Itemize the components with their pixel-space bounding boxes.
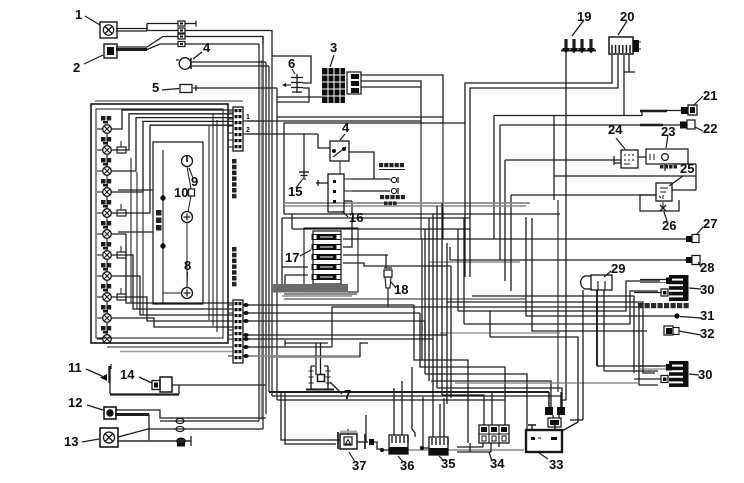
wire (161, 150, 181, 304)
wire (285, 393, 336, 444)
ignition coil 20 (609, 9, 641, 54)
relay 24 (608, 122, 638, 168)
wire (277, 116, 443, 118)
wire (361, 75, 443, 123)
svg-text:22: 22 (703, 121, 717, 136)
wire (349, 152, 374, 179)
wire (107, 346, 233, 348)
wire bus (276, 88, 278, 400)
wire (465, 55, 612, 123)
wire (284, 123, 465, 214)
svg-text:34: 34 (490, 456, 505, 471)
svg-text:1: 1 (75, 7, 82, 22)
wire bus (265, 62, 267, 414)
wire (243, 304, 414, 306)
wire (332, 307, 451, 347)
wire gray (243, 355, 360, 357)
starter 37 (325, 429, 374, 473)
wire (193, 85, 277, 91)
wire (422, 397, 424, 449)
wire gray (440, 332, 560, 334)
wire gray (95, 100, 243, 102)
wire (554, 175, 696, 177)
wire (374, 442, 382, 449)
box around 17 (304, 228, 358, 292)
wire gray (282, 295, 352, 297)
battery 33 (526, 424, 563, 472)
wire (431, 381, 551, 407)
wire (192, 65, 269, 67)
tap 31 (675, 308, 715, 323)
inline connector (176, 418, 184, 423)
ground 15 (288, 169, 309, 199)
inline connector (178, 28, 185, 33)
wire (243, 338, 433, 340)
wire (343, 218, 352, 247)
wire (414, 305, 468, 443)
wire (472, 296, 634, 373)
relay 16 (328, 174, 363, 225)
wire thick (269, 391, 549, 393)
svg-text:13: 13 (64, 434, 78, 449)
wire (272, 392, 561, 407)
wire (449, 247, 451, 260)
inline connector (178, 42, 185, 47)
circle terminal b (391, 188, 398, 194)
wire (451, 307, 658, 385)
wire (420, 313, 505, 425)
wire (526, 217, 647, 316)
wire thick (115, 413, 149, 416)
svg-text:2: 2 (246, 127, 250, 134)
wire (185, 43, 259, 45)
wire gray (429, 261, 520, 263)
horn 29 (581, 261, 626, 290)
wire (483, 443, 499, 452)
svg-text:8: 8 (184, 258, 191, 273)
wire (209, 114, 217, 332)
wire gray (118, 440, 191, 442)
svg-text:6: 6 (288, 56, 295, 71)
connector 14 (120, 367, 172, 392)
svg-text:29: 29 (611, 261, 625, 276)
inline connector (176, 426, 184, 431)
svg-text:10: 10 (174, 185, 188, 200)
wire (500, 125, 680, 260)
socket 4 (176, 40, 211, 69)
speaker 11 (68, 360, 111, 383)
wire (303, 134, 305, 169)
battery switch (545, 392, 565, 427)
svg-text:1: 1 (246, 114, 250, 121)
wire (160, 420, 259, 422)
wire (548, 406, 550, 408)
wire (570, 290, 583, 420)
wire (352, 190, 390, 192)
wire (272, 56, 311, 83)
connector strip upper (233, 107, 258, 151)
inline connector (177, 438, 185, 447)
inner gauge box (153, 142, 203, 304)
wire (116, 46, 147, 48)
wire (344, 201, 352, 214)
wire (640, 195, 679, 211)
svg-text:2: 2 (73, 60, 80, 75)
wire thick (640, 110, 667, 113)
wire (560, 396, 562, 407)
wire (442, 123, 444, 239)
wire (442, 395, 484, 425)
label headlamp switch (638, 303, 689, 308)
wire (464, 123, 466, 277)
wire (614, 156, 621, 165)
svg-text:4: 4 (342, 120, 350, 135)
wire (185, 21, 196, 27)
wire (401, 381, 403, 435)
gauge plus (182, 212, 193, 223)
wire (315, 343, 317, 375)
wire (428, 218, 430, 381)
svg-text:14: 14 (120, 367, 135, 382)
wire (532, 218, 647, 331)
wire thick (640, 124, 663, 126)
wire (285, 275, 308, 290)
sensor 23 (646, 124, 688, 169)
connector 7 (306, 366, 351, 402)
wire (447, 302, 655, 373)
wire (664, 164, 666, 171)
wire (647, 315, 677, 317)
wire (185, 37, 263, 45)
connector 32 (664, 326, 714, 341)
label reverse (380, 195, 405, 205)
label ammeter (156, 210, 162, 231)
svg-text:7: 7 (344, 387, 351, 402)
wire (562, 53, 566, 407)
wire (282, 217, 470, 219)
svg-text:19: 19 (577, 9, 591, 24)
wire (510, 195, 512, 291)
wire gray (455, 382, 639, 384)
svg-text:35: 35 (441, 456, 455, 471)
wire (186, 223, 188, 288)
wire (450, 266, 452, 398)
diode 26 (660, 202, 676, 233)
svg-text:33: 33 (549, 457, 563, 472)
wire (424, 229, 426, 374)
wire (284, 213, 560, 215)
wire bus (271, 56, 273, 396)
svg-text:17: 17 (285, 250, 299, 265)
wire (365, 415, 367, 442)
wire (316, 180, 328, 186)
unit 2 (73, 44, 117, 75)
wire gray (120, 351, 233, 353)
wire (554, 427, 556, 431)
relay 25 (656, 161, 694, 201)
wire (147, 37, 178, 48)
wire (185, 31, 272, 57)
wire (116, 28, 147, 30)
wire (361, 86, 421, 88)
svg-text:27: 27 (703, 216, 717, 231)
wire (432, 214, 434, 410)
wire (464, 291, 658, 324)
wire (115, 410, 266, 418)
sensor 18 (384, 268, 408, 307)
svg-text:18: 18 (394, 282, 408, 297)
wire gray (284, 293, 357, 295)
wire (110, 383, 179, 395)
wire (457, 229, 459, 311)
switch 12 (68, 395, 116, 419)
wire (458, 281, 660, 311)
connector 6 (282, 56, 303, 93)
wire (470, 55, 618, 123)
label text (232, 247, 237, 286)
connector 27 (686, 216, 717, 243)
wire (360, 343, 368, 357)
wire (277, 88, 309, 102)
wire gray (284, 202, 530, 204)
wire (505, 160, 621, 281)
wire (604, 290, 658, 371)
svg-text:28: 28 (700, 260, 714, 275)
wire (446, 243, 448, 404)
wire (243, 346, 332, 348)
wire (491, 392, 493, 425)
warning lamp column (97, 116, 111, 343)
wire (281, 218, 283, 290)
wire (361, 81, 421, 123)
wire (318, 134, 330, 148)
wire (277, 96, 322, 98)
panel resistors (117, 141, 126, 300)
wire (343, 254, 388, 256)
svg-text:3: 3 (330, 40, 337, 55)
wire (243, 312, 420, 314)
wire bus (258, 44, 260, 421)
lamp connector 30b (634, 361, 712, 387)
wire (147, 30, 178, 32)
wire (443, 398, 445, 437)
gauge 9 (182, 156, 199, 190)
spark plugs 19 (561, 9, 596, 54)
svg-text:15: 15 (288, 184, 302, 199)
wire (441, 203, 443, 395)
svg-text:30: 30 (698, 367, 712, 382)
wire bus gray (261, 60, 263, 420)
flasher 17 (272, 231, 348, 293)
svg-text:25: 25 (680, 161, 694, 176)
wire (421, 239, 423, 360)
wire (228, 112, 233, 147)
fuse box 34 (479, 425, 509, 471)
wire (281, 393, 325, 440)
wire (247, 120, 421, 122)
wire (228, 305, 233, 356)
wire (432, 410, 434, 437)
svg-text:16: 16 (349, 210, 363, 225)
wire (285, 340, 328, 346)
wire (343, 238, 422, 240)
wire (412, 367, 415, 437)
wire (436, 206, 438, 388)
wire (118, 190, 153, 232)
wire (147, 44, 178, 50)
wire (511, 194, 656, 196)
svg-text:30: 30 (700, 282, 714, 297)
wire (469, 123, 471, 277)
wire (247, 133, 318, 135)
label brake (379, 163, 405, 170)
motor 35 (420, 437, 455, 471)
svg-text:31: 31 (700, 308, 714, 323)
inline connector (178, 21, 185, 26)
wire (457, 443, 491, 452)
wire (450, 259, 686, 261)
wire (597, 290, 660, 366)
label text (232, 159, 237, 198)
wire (243, 321, 425, 340)
wire (243, 334, 447, 336)
wire (320, 343, 322, 374)
svg-text:24: 24 (608, 122, 623, 137)
svg-text:4: 4 (203, 40, 211, 55)
wire (385, 255, 387, 268)
svg-text:11: 11 (68, 360, 82, 375)
wire (672, 164, 696, 190)
wire gray (284, 205, 526, 207)
wire bus (262, 37, 264, 430)
wire (131, 158, 143, 315)
wire gray (408, 449, 524, 451)
connector 22 (680, 120, 717, 136)
svg-text:21: 21 (703, 88, 717, 103)
wire (192, 61, 266, 63)
lamp unit 1 (75, 7, 117, 38)
switch 4b (330, 120, 350, 174)
wire (553, 116, 555, 201)
wire (116, 24, 147, 32)
connector 5 (152, 80, 192, 95)
wire (148, 415, 150, 442)
wire (672, 163, 696, 165)
svg-text:5: 5 (152, 80, 159, 95)
unit 10 (174, 167, 195, 213)
wire (282, 266, 308, 268)
wire (147, 23, 178, 25)
motor 36 (380, 435, 414, 473)
wire (638, 156, 646, 158)
connector 28 (686, 256, 714, 276)
gauge 8 (182, 258, 193, 299)
wire (490, 337, 578, 422)
svg-text:12: 12 (68, 395, 82, 410)
wire (489, 311, 491, 337)
wire (343, 263, 451, 266)
wire (623, 55, 625, 116)
wire (292, 214, 470, 229)
connector strip lower (233, 300, 249, 363)
wire (352, 178, 390, 180)
wire gray (270, 356, 360, 358)
panel wiring bottom nest (111, 234, 233, 327)
wire (437, 388, 562, 407)
wire bus (268, 66, 270, 392)
lamp connector 30 (634, 275, 714, 301)
wire (557, 200, 559, 392)
wire (624, 54, 635, 72)
switch 13 (64, 428, 118, 449)
wire (422, 238, 686, 240)
wire (118, 429, 263, 437)
wire (172, 384, 266, 386)
wire (463, 218, 465, 324)
wire (277, 399, 505, 401)
wire (562, 422, 578, 431)
fuse block 3 (322, 40, 361, 103)
wire gray (284, 298, 526, 300)
wire thick (116, 48, 147, 51)
panel wiring top nest (111, 110, 233, 213)
svg-text:32: 32 (700, 326, 714, 341)
wire (425, 374, 527, 430)
connector 21 (681, 88, 717, 115)
wire (567, 399, 569, 401)
wire (190, 436, 192, 446)
wire (494, 111, 681, 240)
wire (439, 404, 441, 437)
instrument panel box (91, 104, 228, 343)
wire (420, 123, 422, 239)
circle terminal a (390, 177, 398, 183)
inline connector (178, 34, 185, 39)
wire (393, 388, 395, 435)
svg-text:26: 26 (662, 218, 676, 233)
